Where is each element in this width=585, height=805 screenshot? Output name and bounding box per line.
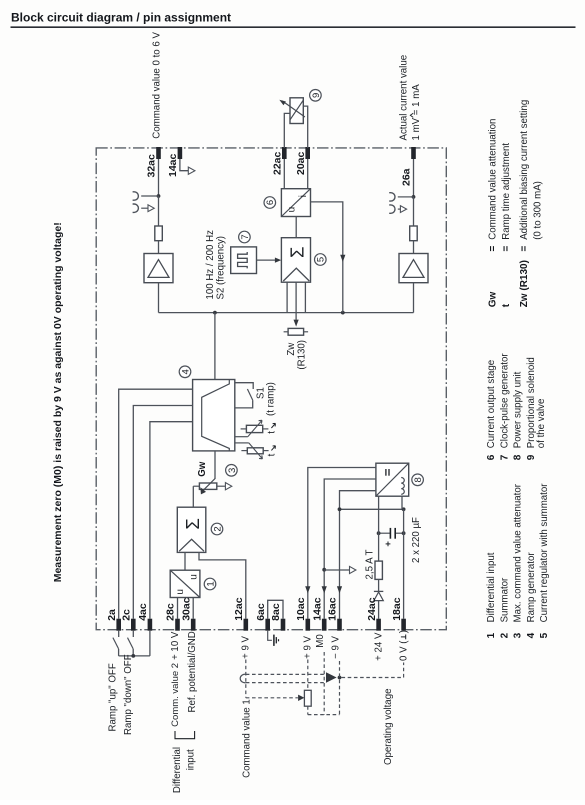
measuring jack at node B: [389, 193, 413, 201]
svg-text:1: 1: [486, 632, 497, 638]
svg-text:7: 7: [499, 454, 510, 460]
wire differential input to pin 30ac: [192, 598, 194, 619]
pin 12ac: [233, 597, 248, 630]
current regulator with summator U5: [281, 238, 310, 283]
regulator output wire right to bus: [304, 282, 306, 312]
wire pin 4ac below card: [149, 631, 151, 656]
node M0 measuring branch: [322, 568, 326, 572]
pin 20ac (solenoid output -): [295, 147, 310, 175]
ramp up switch at pin 2a: [113, 631, 119, 656]
svg-text:Current regulator with summato: Current regulator with summator: [539, 483, 550, 623]
wire ramp input 1 from pin 2a: [119, 389, 193, 619]
ramp time potentiometer t-up: [235, 443, 269, 459]
feedback direction arrow: [340, 255, 345, 262]
node A junction on 32ac wire: [157, 194, 161, 198]
svg-text:1 mV = 1 mA: 1 mV = 1 mA: [411, 84, 422, 141]
ramp generator U4: [193, 380, 235, 451]
regulator output wire left to bus: [286, 282, 288, 312]
ramp switch S1: [235, 383, 253, 408]
wire summator to differential input: [184, 552, 186, 570]
wire node B to shunt resistor: [413, 197, 415, 226]
svg-text:30ac: 30ac: [180, 597, 192, 621]
pin 8ac: [270, 603, 285, 631]
svg-text:(0 to 300 mA): (0 to 300 mA): [532, 181, 543, 240]
svg-text:Command value 0 to 6 V: Command value 0 to 6 V: [152, 32, 163, 139]
pin 4ac: [137, 603, 152, 631]
pin 10ac: [295, 597, 310, 630]
external wiring pair upper line: [246, 673, 325, 675]
svg-text:Ref. potential/GND: Ref. potential/GND: [187, 631, 198, 712]
svg-text:− 9 V: − 9 V: [330, 635, 341, 658]
wire power supply right output to rail: [401, 496, 403, 509]
M0 measuring arrow wire: [324, 566, 356, 573]
external wiring cable end arc: [240, 674, 246, 682]
external +9V wire from pin 10ac to pot: [307, 660, 309, 691]
measuring jack at node A: [133, 192, 159, 200]
bus junction to current feedback: [341, 311, 345, 315]
svg-text:i: i: [298, 195, 309, 197]
svg-text:Σ: Σ: [286, 247, 307, 258]
label t down: [267, 423, 278, 433]
pin 18ac: [391, 597, 406, 630]
svg-text:26a: 26a: [401, 168, 413, 186]
attenuator test arrow: [225, 483, 231, 490]
svg-text:22ac: 22ac: [272, 151, 284, 175]
switch junction node: [131, 654, 135, 658]
svg-text:12ac: 12ac: [233, 597, 245, 621]
wire pin 22ac down to output stage: [283, 159, 285, 189]
callout 7: [239, 231, 251, 243]
svg-text:2a: 2a: [106, 609, 118, 621]
wire output stage to current regulator: [295, 217, 297, 238]
wire input amplifier down to summing bus: [158, 283, 160, 313]
wire ramp generator to Gw wiper: [214, 451, 216, 479]
input amplifier A1: [144, 254, 173, 283]
svg-text:18ac: 18ac: [391, 597, 403, 621]
svg-text:2,5 A T: 2,5 A T: [365, 549, 376, 579]
svg-text:0 V (: 0 V (: [399, 640, 410, 661]
node B junction on 26a wire: [412, 195, 416, 199]
svg-text:): ): [399, 630, 410, 633]
external wiring pair lower line: [246, 682, 325, 684]
svg-text:2: 2: [499, 632, 510, 638]
Zw wiper arrow: [294, 320, 299, 327]
svg-text:Σ: Σ: [182, 518, 203, 529]
callout 9: [310, 90, 322, 102]
label 100 Hz / 200 Hz S2 (frequency): [205, 230, 227, 300]
amplifier card boundary: [96, 148, 446, 630]
capacitor junction on 24ac line: [377, 531, 381, 535]
wire ramp input 2 from pin 2c: [133, 406, 192, 619]
svg-text:Power supply unit: Power supply unit: [513, 371, 524, 448]
svg-text:Ramp "down" OFF: Ramp "down" OFF: [123, 654, 134, 735]
svg-text:M0: M0: [315, 634, 326, 648]
svg-text:16ac: 16ac: [327, 597, 339, 621]
smoothing capacitor 2 x 220 uF: [379, 528, 404, 546]
pot bottom wire: [308, 714, 340, 716]
svg-text:20ac: 20ac: [295, 151, 307, 175]
svg-text:Measurement zero (M0) is raise: Measurement zero (M0) is raised by 9 V a…: [52, 222, 64, 582]
proportional solenoid Y1: [279, 98, 305, 124]
svg-text:6: 6: [486, 454, 497, 460]
external wire to 0V pin 18ac: [342, 663, 404, 678]
wire joining ramp switches to pin 4ac: [119, 655, 150, 657]
wire node A to input resistor: [158, 196, 160, 226]
wire diode to pin 24ac: [378, 601, 380, 619]
pin 2a: [106, 609, 121, 631]
svg-text:100 Hz / 200 Hz: 100 Hz / 200 Hz: [205, 230, 216, 300]
command value attenuator Gw: [193, 483, 225, 489]
callout 8: [412, 474, 424, 486]
pin 28c: [165, 603, 180, 631]
measuring plug arrow below jack: [133, 204, 155, 212]
svg-text:Ramp "up" OFF: Ramp "up" OFF: [107, 663, 118, 731]
ramp down switch at pin 2c: [128, 631, 134, 656]
svg-text:5: 5: [316, 257, 327, 262]
svg-text:=: =: [488, 246, 499, 252]
svg-text:t: t: [267, 453, 278, 456]
svg-text:Operating voltage: Operating voltage: [383, 689, 394, 765]
wire measuring amplifier down to summing bus: [413, 283, 415, 313]
pin 30ac: [180, 597, 195, 630]
svg-text:32ac: 32ac: [146, 154, 158, 178]
svg-text:u: u: [189, 574, 200, 580]
svg-text:8: 8: [513, 454, 524, 460]
label comm. value 2 +10V at pin 28c: [170, 631, 181, 727]
pin 26a (actual current value output): [401, 147, 416, 186]
svg-text:(t ramp): (t ramp): [265, 382, 276, 416]
title rule: [11, 26, 576, 28]
svg-text:=: =: [519, 246, 530, 252]
supply rail wire: [340, 508, 404, 510]
svg-text:7: 7: [240, 234, 251, 239]
external -9V wire from pin 16ac: [339, 661, 341, 715]
measuring plug arrow below jack B: [389, 205, 406, 213]
svg-text:9: 9: [311, 93, 322, 98]
shield junction node: [338, 676, 342, 680]
pot wiper wire to 12ac: [246, 695, 305, 701]
svg-text:9: 9: [526, 454, 537, 460]
cable shield arrow to 0V: [326, 672, 337, 682]
shunt resistor R2: [410, 226, 418, 241]
wire pin 26a down to node B: [413, 159, 415, 197]
svg-text:Gw: Gw: [197, 461, 208, 477]
wire fuse to diode: [378, 579, 380, 591]
label S1 (t ramp): [255, 382, 276, 416]
protection diode V1: [374, 591, 383, 600]
svg-text:2 x 220 µF: 2 x 220 µF: [411, 517, 422, 563]
svg-text:10ac: 10ac: [295, 597, 307, 621]
svg-text:t: t: [267, 431, 278, 434]
pin 14ac top (measuring output): [167, 147, 182, 177]
pin 14ac: [311, 597, 326, 630]
label Differential input: [172, 747, 197, 793]
svg-text:6: 6: [265, 200, 276, 205]
svg-text:Differential input: Differential input: [486, 552, 497, 622]
summator U2: [177, 507, 206, 552]
callout 3: [226, 465, 238, 477]
wire resistor to measuring amplifier: [413, 241, 415, 254]
svg-text:Clock-pulse generator: Clock-pulse generator: [499, 353, 510, 449]
svg-text:1: 1: [205, 581, 216, 586]
callout 1: [204, 578, 216, 590]
clock-pulse generator U7: [231, 247, 257, 274]
pin 16ac: [327, 597, 342, 630]
wire Gw to summator 2: [192, 486, 194, 507]
callout 2: [211, 523, 223, 535]
arrow on 14ac supply wire: [322, 586, 327, 593]
svg-text:3: 3: [227, 468, 238, 473]
jumper between pins 6ac and 8ac: [268, 600, 283, 618]
svg-text:+ 9 V: + 9 V: [240, 635, 251, 658]
ground tie at pins 6ac/8ac: [268, 631, 279, 646]
svg-text:Actual current value: Actual current value: [398, 55, 409, 141]
wire +9V supply to pin 10ac: [308, 468, 376, 619]
svg-text:2: 2: [212, 526, 223, 531]
callout 6: [264, 197, 276, 209]
arrow on 16ac supply wire: [337, 586, 342, 593]
svg-text:5: 5: [539, 632, 550, 638]
wire bus down to ramp generator: [214, 313, 216, 380]
differential input U1: [170, 570, 200, 597]
svg-text:24ac: 24ac: [366, 597, 378, 621]
svg-text:4: 4: [526, 632, 537, 638]
svg-text:Block circuit diagram / pin as: Block circuit diagram / pin assignment: [11, 11, 231, 25]
wire rail to fuse: [378, 509, 380, 561]
svg-text:(R130): (R130): [297, 340, 308, 370]
capacitor junction on 18ac line: [402, 531, 406, 535]
svg-text:Zw: Zw: [286, 342, 297, 356]
current feedback wire from output stage to bus: [311, 202, 343, 313]
svg-text:Gw: Gw: [488, 292, 499, 308]
current output stage U6 (u/i converter): [281, 189, 310, 217]
wire differential input to pin 28c: [177, 598, 179, 619]
svg-text:=: =: [501, 246, 512, 252]
wire -9V supply to pin 16ac: [340, 491, 376, 619]
fuse 2.5 A T: [375, 561, 382, 579]
ramp time potentiometer t-down: [235, 420, 269, 436]
callout 4: [179, 366, 191, 378]
command value 1 potentiometer: [304, 690, 311, 714]
svg-text:3: 3: [513, 632, 524, 638]
wire regulator to Zw wiper: [295, 282, 297, 320]
legend callouts 6-9: [486, 353, 547, 461]
input resistor R1: [155, 226, 163, 241]
arrow on 10ac supply wire: [305, 586, 310, 593]
pin 24ac: [366, 597, 381, 630]
svg-text:Ramp time adjustment: Ramp time adjustment: [501, 143, 512, 240]
svg-text:of the valve: of the valve: [536, 399, 547, 449]
legend adjustment symbols: [488, 100, 544, 308]
wire pin 20ac to solenoid: [303, 106, 307, 148]
clock output arrow into regulator: [257, 258, 282, 263]
svg-text:8: 8: [413, 477, 424, 482]
external M0 wire from pin 14ac: [323, 652, 325, 715]
label Zw (R130): [286, 340, 307, 370]
callout 5: [315, 254, 327, 266]
wire from pin 14ac to measuring arrow: [180, 159, 188, 171]
svg-text:14ac: 14ac: [167, 153, 179, 177]
svg-text:Current output stage: Current output stage: [486, 360, 497, 448]
svg-text:2c: 2c: [121, 609, 133, 621]
svg-text:Comm. value 2: Comm. value 2: [170, 663, 181, 727]
svg-text:u: u: [175, 589, 186, 595]
svg-text:6ac: 6ac: [255, 603, 267, 621]
wire command value 1 from pin 12ac to summator: [199, 552, 246, 618]
svg-text:Command value attenuation: Command value attenuation: [488, 119, 499, 240]
svg-text:Summator: Summator: [499, 577, 510, 622]
svg-text:4ac: 4ac: [137, 603, 149, 621]
Gw wiper arrow diagonal: [200, 478, 215, 494]
biasing potentiometer Zw R130: [284, 328, 309, 335]
svg-text:+ 10 V: + 10 V: [170, 631, 181, 660]
svg-text:input: input: [186, 749, 197, 770]
svg-text:S2 (frequency): S2 (frequency): [215, 236, 226, 300]
differential input bracket: [175, 731, 195, 739]
power supply unit U8: [376, 463, 409, 496]
svg-text:8ac: 8ac: [270, 603, 282, 621]
svg-text:Max. command value attenuator: Max. command value attenuator: [513, 483, 524, 622]
svg-text:Command value 1: Command value 1: [241, 699, 252, 778]
pin 22ac (solenoid output +): [272, 147, 287, 175]
measuring-point arrow at 14ac: [188, 167, 195, 174]
legend callouts 1-5: [486, 483, 550, 639]
wire rail to pin 18ac: [403, 509, 405, 618]
svg-text:28c: 28c: [165, 603, 177, 621]
pin 2c: [121, 609, 136, 631]
wire ramp input 3 from pin 4ac: [150, 422, 193, 619]
svg-text:Additional biasing current set: Additional biasing current setting: [519, 100, 530, 240]
pin 6ac: [255, 603, 270, 631]
wire pin 32ac down to node A: [158, 159, 160, 196]
label 0V ground at pin 18ac: [399, 630, 410, 661]
svg-text:14ac: 14ac: [311, 597, 323, 621]
wire pin 20ac down to output stage: [307, 159, 309, 189]
wire pin 22ac to solenoid: [284, 113, 290, 147]
rail junction 16ac: [338, 507, 342, 511]
svg-text:Zw (R130): Zw (R130): [519, 260, 530, 307]
rail junction 18ac: [402, 507, 406, 511]
svg-text:+ 9 V: + 9 V: [302, 635, 313, 658]
bus junction to ramp generator: [213, 311, 217, 315]
wire power supply to rail: [378, 496, 380, 509]
svg-text:4: 4: [180, 369, 191, 374]
external command pot wiring: 12ac stub: [245, 660, 247, 698]
wire M0 supply to pin 14ac: [324, 479, 376, 619]
svg-text:Ramp generator: Ramp generator: [526, 552, 537, 623]
label t up: [267, 446, 278, 457]
pin 32ac (command value input): [146, 147, 161, 178]
svg-text:+ 24 V: + 24 V: [374, 632, 385, 661]
measuring amplifier A2: [399, 254, 428, 283]
svg-text:u: u: [287, 207, 298, 213]
svg-text:Differential: Differential: [172, 747, 183, 793]
wire resistor to input amplifier: [158, 241, 160, 254]
summing bus wire: [159, 312, 414, 314]
